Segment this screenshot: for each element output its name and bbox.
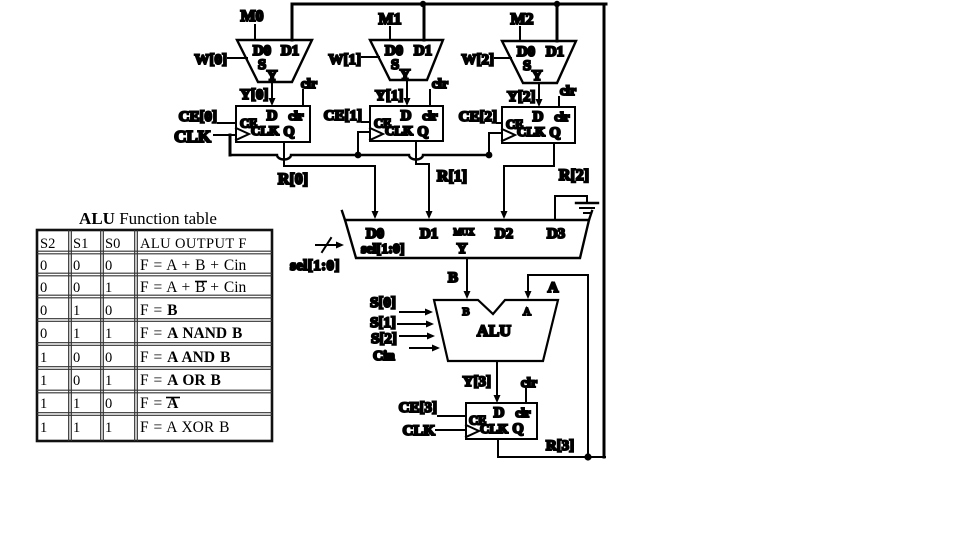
table: ALU function table grid bbox=[37, 230, 272, 441]
svg-text:Q: Q bbox=[512, 421, 523, 437]
svg-text:1: 1 bbox=[73, 396, 80, 412]
svg-text:B: B bbox=[448, 270, 458, 286]
svg-text:clr: clr bbox=[554, 109, 569, 124]
table: row 111 F = A XOR B bbox=[40, 419, 229, 436]
svg-text:ALU OUTPUT F: ALU OUTPUT F bbox=[140, 236, 247, 252]
svg-text:Y[1]: Y[1] bbox=[375, 88, 403, 104]
svg-text:F = A + B + Cin: F = A + B + Cin bbox=[140, 279, 247, 296]
wire: S[0] arrow into ALU bbox=[400, 311, 426, 313]
wire: U3 Y output to FF3 D (net Y[2]) bbox=[538, 83, 540, 99]
svg-text:1: 1 bbox=[40, 396, 47, 412]
wire: FF2 Q output down (net R[1]) bbox=[415, 141, 417, 164]
clock triangle of FF4 bbox=[466, 425, 479, 437]
svg-text:1: 1 bbox=[40, 420, 47, 436]
junction: clock bus to FF3 bbox=[486, 152, 493, 159]
register FF2 (R[1] D flip-flop) bbox=[370, 106, 443, 141]
svg-text:CLK: CLK bbox=[480, 421, 509, 436]
mux U5 right edge overshoot bbox=[589, 211, 592, 220]
wire: A input horizontal bbox=[528, 274, 588, 276]
svg-text:D: D bbox=[533, 109, 544, 125]
svg-text:0: 0 bbox=[73, 350, 80, 366]
table: row 101 F = A OR B bbox=[40, 372, 221, 389]
svg-text:clr: clr bbox=[432, 77, 448, 92]
wire: R[3] feedback vertical to ALU A bbox=[587, 275, 589, 457]
register FF3 (R[2] D flip-flop) bbox=[502, 107, 575, 143]
wire: R[0] horizontal run to mux D0 bbox=[284, 165, 375, 167]
wire: D3 tie to ground bbox=[555, 196, 587, 220]
svg-text:S0: S0 bbox=[105, 236, 120, 252]
svg-text:S: S bbox=[258, 57, 266, 73]
table: row 010 F = B bbox=[40, 302, 177, 319]
bus slash on sel[1:0] bbox=[322, 238, 331, 252]
junction: clock bus to FF2 bbox=[355, 152, 362, 159]
wire: R[0] drop into 4:1 mux D0 bbox=[374, 166, 376, 212]
wire: R[1] drop into 4:1 mux D1 bbox=[428, 164, 430, 212]
table: row 110 F = notA bbox=[40, 395, 180, 412]
wire: clock distribution bus with hops under Q wires bbox=[230, 155, 489, 160]
svg-text:Cin: Cin bbox=[373, 349, 395, 364]
svg-text:CLK: CLK bbox=[251, 123, 280, 138]
wire: clock bus to FF2 clock pin bbox=[358, 132, 370, 155]
svg-text:1: 1 bbox=[73, 326, 80, 342]
wire: S[2] arrow into ALU bbox=[400, 335, 428, 337]
svg-text:S1: S1 bbox=[73, 236, 88, 252]
clock triangle of FF2 bbox=[370, 128, 383, 140]
svg-text:0: 0 bbox=[40, 258, 47, 274]
svg-text:0: 0 bbox=[105, 303, 112, 319]
svg-text:W[1]: W[1] bbox=[329, 52, 362, 68]
table: row 001 F = A + notB + Cin bbox=[40, 279, 247, 296]
svg-text:S2: S2 bbox=[40, 236, 55, 252]
svg-text:1: 1 bbox=[40, 350, 47, 366]
wire: clr stub to FF4 bbox=[525, 389, 527, 403]
junction: top bus to mux3 D1 drop bbox=[554, 1, 560, 7]
wire: clr stub to FF1 bbox=[302, 90, 304, 106]
wire: CE[1] to FF2 bbox=[362, 121, 370, 123]
svg-text:clr: clr bbox=[515, 405, 530, 420]
svg-text:MUX: MUX bbox=[453, 227, 475, 237]
wire: U2 Y output to FF2 D (net Y[1]) bbox=[406, 80, 408, 98]
mux U3 (2:1 mux for bit2) bbox=[502, 41, 576, 83]
svg-text:S[2]: S[2] bbox=[371, 331, 397, 347]
svg-text:F = A NAND B: F = A NAND B bbox=[140, 325, 242, 342]
svg-text:R[2]: R[2] bbox=[559, 167, 589, 184]
svg-text:M2: M2 bbox=[510, 11, 533, 28]
svg-text:0: 0 bbox=[105, 258, 112, 274]
svg-text:0: 0 bbox=[105, 350, 112, 366]
wire: M2 input stub bbox=[519, 27, 521, 41]
ground symbol bbox=[576, 202, 598, 204]
svg-text:1: 1 bbox=[40, 373, 47, 389]
svg-text:clr: clr bbox=[288, 108, 303, 123]
wire: FF4 Q output down (net R[3]) bbox=[497, 439, 499, 457]
svg-text:CLK: CLK bbox=[517, 124, 546, 139]
svg-text:R[0]: R[0] bbox=[278, 171, 308, 188]
svg-text:S[1]: S[1] bbox=[370, 315, 396, 331]
wire: A input drop into ALU bbox=[527, 275, 529, 292]
svg-text:Y[3]: Y[3] bbox=[463, 374, 491, 390]
svg-text:Y[0]: Y[0] bbox=[240, 87, 268, 103]
register FF4 (R[3] D flip-flop) bbox=[466, 403, 537, 439]
svg-text:ALU: ALU bbox=[477, 322, 511, 340]
table: header row bbox=[40, 236, 247, 252]
svg-text:0: 0 bbox=[40, 326, 47, 342]
wire: clock bus to FF3 clock pin bbox=[489, 133, 502, 155]
svg-text:CE[2]: CE[2] bbox=[459, 109, 497, 125]
wire: clr stub to FF2 bbox=[429, 90, 431, 106]
svg-text:S[0]: S[0] bbox=[370, 295, 396, 311]
ALU U6 bbox=[434, 300, 558, 361]
wire: FF1 Q output down (net R[0]) bbox=[283, 142, 285, 166]
table: row 000 F = A + B + Cin bbox=[40, 257, 247, 274]
svg-text:R[1]: R[1] bbox=[437, 168, 467, 185]
svg-text:1: 1 bbox=[105, 326, 112, 342]
svg-text:sel[1:0]: sel[1:0] bbox=[290, 258, 340, 274]
svg-text:F = A OR B: F = A OR B bbox=[140, 372, 221, 389]
svg-text:CE[1]: CE[1] bbox=[324, 108, 362, 124]
svg-text:M1: M1 bbox=[378, 11, 401, 28]
svg-text:CLK: CLK bbox=[402, 423, 435, 439]
junction: top bus to mux2 D1 drop bbox=[420, 1, 426, 7]
svg-text:0: 0 bbox=[73, 280, 80, 296]
svg-text:D1: D1 bbox=[420, 226, 438, 242]
wire: CLK drop to clock bus bbox=[229, 135, 232, 155]
wire: S[1] arrow into ALU bbox=[398, 323, 427, 325]
clock triangle of FF1 bbox=[236, 128, 249, 140]
svg-text:R[3]: R[3] bbox=[546, 438, 574, 454]
svg-text:1: 1 bbox=[73, 420, 80, 436]
svg-text:CLK: CLK bbox=[174, 127, 212, 146]
svg-text:clr: clr bbox=[521, 376, 537, 391]
wire: M0 input stub bbox=[254, 25, 256, 40]
wire: ALU output to FF4 D (net Y[3]) bbox=[496, 361, 498, 396]
table: row 100 F = A AND B bbox=[40, 349, 230, 366]
svg-text:0: 0 bbox=[40, 280, 47, 296]
svg-text:CE[3]: CE[3] bbox=[399, 400, 437, 416]
wire: R[2] drop into 4:1 mux D2 bbox=[503, 166, 505, 212]
svg-text:D1: D1 bbox=[546, 44, 564, 60]
wire: CLK input to FF1 clock pin bbox=[214, 134, 236, 136]
svg-text:1: 1 bbox=[73, 303, 80, 319]
svg-text:1: 1 bbox=[105, 420, 112, 436]
svg-text:D: D bbox=[494, 405, 505, 421]
wire: Cin arrow into ALU bbox=[410, 347, 433, 349]
wire: U1 Y output to FF1 D (net Y[0]) bbox=[271, 82, 273, 98]
svg-text:S: S bbox=[523, 58, 531, 74]
svg-text:Q: Q bbox=[283, 124, 294, 140]
svg-text:0: 0 bbox=[73, 258, 80, 274]
svg-text:Y: Y bbox=[400, 67, 411, 83]
svg-text:A: A bbox=[523, 306, 531, 318]
junction: R[3] to ALU-A feedback vertical bbox=[584, 453, 591, 460]
svg-text:0: 0 bbox=[73, 373, 80, 389]
svg-text:1: 1 bbox=[105, 280, 112, 296]
wire: R[2] horizontal run left bbox=[504, 165, 554, 167]
svg-text:ALU Function table: ALU Function table bbox=[79, 209, 217, 228]
svg-text:Y: Y bbox=[532, 68, 543, 84]
svg-text:1: 1 bbox=[105, 373, 112, 389]
svg-text:CE[0]: CE[0] bbox=[179, 109, 217, 125]
wire: clr stub to FF3 bbox=[558, 97, 560, 107]
wire: CE[0] to FF1 bbox=[218, 122, 236, 124]
wire: W[2] to mux U3 select bbox=[495, 57, 511, 59]
svg-text:F = A AND B: F = A AND B bbox=[140, 349, 230, 366]
wire: M1 input stub bbox=[389, 27, 391, 40]
svg-text:D1: D1 bbox=[281, 43, 299, 59]
svg-text:Y[2]: Y[2] bbox=[507, 89, 535, 105]
svg-text:M0: M0 bbox=[240, 8, 263, 25]
wire: mux2 D1 drop bbox=[423, 4, 426, 40]
svg-text:Q: Q bbox=[417, 124, 428, 140]
svg-text:W[0]: W[0] bbox=[195, 52, 228, 68]
svg-text:clr: clr bbox=[560, 84, 576, 99]
wire: R[3] horizontal run to feedback verticals bbox=[498, 456, 605, 458]
wire: mux1 D1 drop bbox=[291, 4, 294, 40]
svg-text:D1: D1 bbox=[414, 43, 432, 59]
svg-text:D0: D0 bbox=[366, 226, 384, 242]
wire: right feedback vertical (R[3] to top bus) bbox=[603, 4, 606, 457]
register FF1 (R[0] D flip-flop) bbox=[236, 106, 310, 142]
wire: W[1] to mux U2 select bbox=[362, 56, 379, 58]
wire: sel[1:0] input arrow bbox=[316, 244, 337, 246]
wire: top feedback bus from R[3] to mux D1 inputs bbox=[292, 3, 606, 6]
wire: R[1] jog right bbox=[416, 163, 429, 165]
svg-text:F = A XOR B: F = A XOR B bbox=[140, 419, 229, 436]
table: row 011 F = A NAND B bbox=[40, 325, 242, 342]
wire: U5 Y output to ALU B input (net B) bbox=[466, 258, 468, 292]
svg-text:CLK: CLK bbox=[385, 123, 414, 138]
mux U5 left edge overshoot bbox=[342, 211, 345, 220]
wire: CLK to FF4 clock pin bbox=[436, 429, 466, 431]
mux U5 (4:1 mux) bbox=[345, 220, 589, 258]
svg-text:B: B bbox=[462, 306, 469, 318]
clock triangle of FF3 bbox=[502, 129, 515, 141]
svg-text:0: 0 bbox=[105, 396, 112, 412]
svg-text:D3: D3 bbox=[547, 226, 565, 242]
svg-text:A: A bbox=[548, 280, 559, 296]
svg-text:F = B: F = B bbox=[140, 302, 177, 319]
svg-text:sel[1:0]: sel[1:0] bbox=[361, 242, 405, 257]
svg-text:D2: D2 bbox=[495, 226, 513, 242]
svg-text:D: D bbox=[401, 108, 412, 124]
wire: mux3 D1 drop bbox=[556, 4, 559, 41]
wire: FF3 Q output down (net R[2]) bbox=[553, 143, 555, 166]
svg-text:S: S bbox=[391, 57, 399, 73]
svg-text:D: D bbox=[267, 108, 278, 124]
wire: CE[3] to FF4 bbox=[438, 415, 466, 417]
svg-text:0: 0 bbox=[40, 303, 47, 319]
mux U2 (2:1 mux for bit1) bbox=[370, 40, 443, 80]
wire: W[0] to mux U1 select bbox=[228, 57, 247, 59]
wire: CE[2] to FF3 bbox=[497, 122, 502, 124]
svg-text:Q: Q bbox=[549, 125, 560, 141]
svg-text:W[2]: W[2] bbox=[462, 52, 495, 68]
mux U1 (2:1 mux for bit0) bbox=[237, 40, 312, 82]
svg-text:Y: Y bbox=[457, 241, 468, 257]
svg-text:F = A + B + Cin: F = A + B + Cin bbox=[140, 257, 247, 274]
svg-text:clr: clr bbox=[422, 108, 437, 123]
